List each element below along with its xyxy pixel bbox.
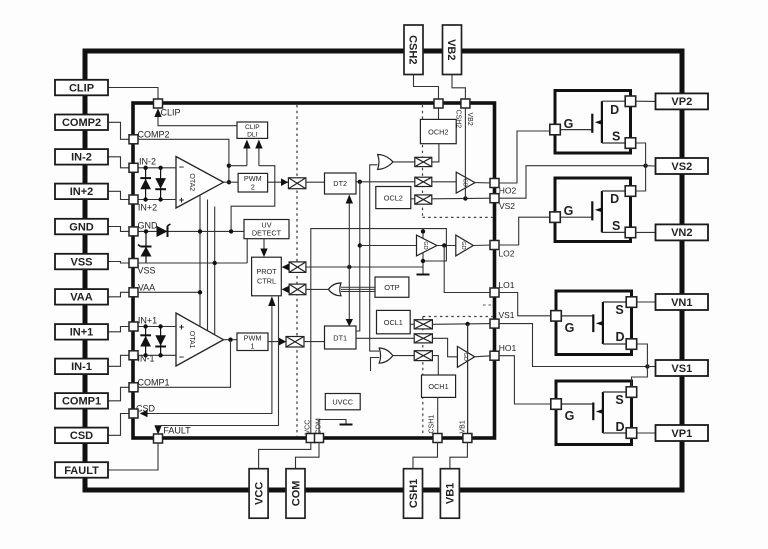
svg-text:VB2: VB2	[445, 39, 457, 60]
svg-text:VSS: VSS	[70, 256, 92, 268]
svg-text:OTP: OTP	[384, 283, 399, 292]
svg-text:VS2: VS2	[499, 201, 515, 211]
svg-text:COMP2: COMP2	[137, 130, 169, 140]
svg-text:VCC: VCC	[305, 420, 312, 435]
svg-text:LO1: LO1	[498, 280, 514, 290]
svg-text:VP1: VP1	[671, 428, 692, 440]
svg-text:CSH2: CSH2	[407, 35, 419, 64]
svg-text:–: –	[179, 352, 184, 362]
svg-text:IN-2: IN-2	[139, 157, 156, 167]
svg-text:COM: COM	[290, 481, 302, 507]
svg-text:2: 2	[251, 183, 255, 192]
svg-text:VP2: VP2	[671, 96, 692, 108]
svg-text:IN+2: IN+2	[70, 186, 94, 198]
svg-text:IN+1: IN+1	[70, 327, 94, 339]
svg-text:HO1: HO1	[499, 343, 517, 353]
svg-text:DT2: DT2	[333, 179, 347, 188]
svg-text:CLIP: CLIP	[245, 124, 260, 131]
svg-text:–: –	[179, 162, 184, 172]
svg-text:S: S	[612, 130, 620, 144]
svg-text:OTA1: OTA1	[188, 331, 195, 349]
svg-text:VB2: VB2	[466, 113, 473, 126]
svg-text:G: G	[564, 204, 574, 218]
svg-text:DETECT: DETECT	[252, 229, 282, 238]
svg-text:HO2: HO2	[499, 186, 517, 196]
svg-text:VN2: VN2	[671, 227, 692, 239]
svg-text:DLI: DLI	[247, 131, 257, 138]
svg-text:OTA2: OTA2	[188, 173, 195, 191]
svg-text:S: S	[612, 219, 620, 233]
svg-text:FAULT: FAULT	[64, 465, 99, 477]
svg-text:FAULT: FAULT	[163, 426, 191, 436]
svg-text:VB1: VB1	[445, 483, 457, 504]
svg-text:LO2: LO2	[498, 249, 514, 259]
svg-text:S: S	[615, 303, 623, 317]
svg-text:GD: GD	[460, 241, 466, 249]
svg-text:IN-1: IN-1	[71, 361, 92, 373]
svg-text:CLIP: CLIP	[69, 82, 94, 94]
svg-text:IN-2: IN-2	[71, 152, 92, 164]
svg-text:PROT: PROT	[256, 267, 277, 276]
svg-text:+: +	[179, 322, 184, 332]
svg-text:VB1: VB1	[460, 420, 467, 433]
svg-text:CLIP: CLIP	[160, 108, 180, 118]
svg-text:+: +	[179, 195, 184, 205]
svg-text:G: G	[565, 409, 575, 423]
svg-text:IN+2: IN+2	[138, 203, 157, 213]
svg-text:1: 1	[250, 342, 254, 351]
svg-text:D: D	[615, 330, 624, 344]
svg-text:VAA: VAA	[70, 292, 92, 304]
svg-text:D: D	[610, 103, 619, 117]
svg-text:OCH1: OCH1	[428, 382, 448, 391]
svg-text:OCL1: OCL1	[384, 318, 403, 327]
svg-text:UVCC: UVCC	[332, 398, 353, 407]
svg-text:GND: GND	[138, 221, 159, 231]
svg-text:D: D	[615, 420, 624, 434]
svg-text:GND: GND	[69, 221, 94, 233]
svg-text:VAA: VAA	[138, 283, 155, 293]
svg-text:G: G	[565, 321, 575, 335]
svg-text:VN1: VN1	[671, 297, 692, 309]
svg-text:G: G	[564, 117, 574, 131]
svg-text:DT1: DT1	[333, 334, 347, 343]
svg-text:OCL2: OCL2	[384, 194, 403, 203]
svg-text:CTRL: CTRL	[257, 277, 276, 286]
svg-text:COMP2: COMP2	[62, 117, 101, 129]
svg-text:CSH1: CSH1	[429, 415, 436, 434]
svg-text:OCH2: OCH2	[428, 128, 448, 137]
svg-text:CSH1: CSH1	[408, 479, 420, 508]
svg-text:VS1: VS1	[671, 363, 692, 375]
svg-text:COMP1: COMP1	[62, 396, 101, 408]
svg-text:COMP1: COMP1	[137, 378, 169, 388]
svg-text:VS2: VS2	[671, 161, 692, 173]
svg-text:D: D	[610, 192, 619, 206]
svg-text:GD: GD	[462, 178, 468, 186]
svg-text:VCC: VCC	[253, 482, 265, 505]
svg-text:VS1: VS1	[498, 310, 514, 320]
svg-text:CSH2: CSH2	[455, 110, 462, 129]
svg-text:GD: GD	[422, 241, 428, 249]
svg-text:S: S	[615, 393, 623, 407]
svg-text:IN+1: IN+1	[138, 316, 157, 326]
svg-text:COM: COM	[316, 418, 323, 435]
svg-text:CSD: CSD	[70, 430, 93, 442]
svg-text:VSS: VSS	[137, 266, 155, 276]
